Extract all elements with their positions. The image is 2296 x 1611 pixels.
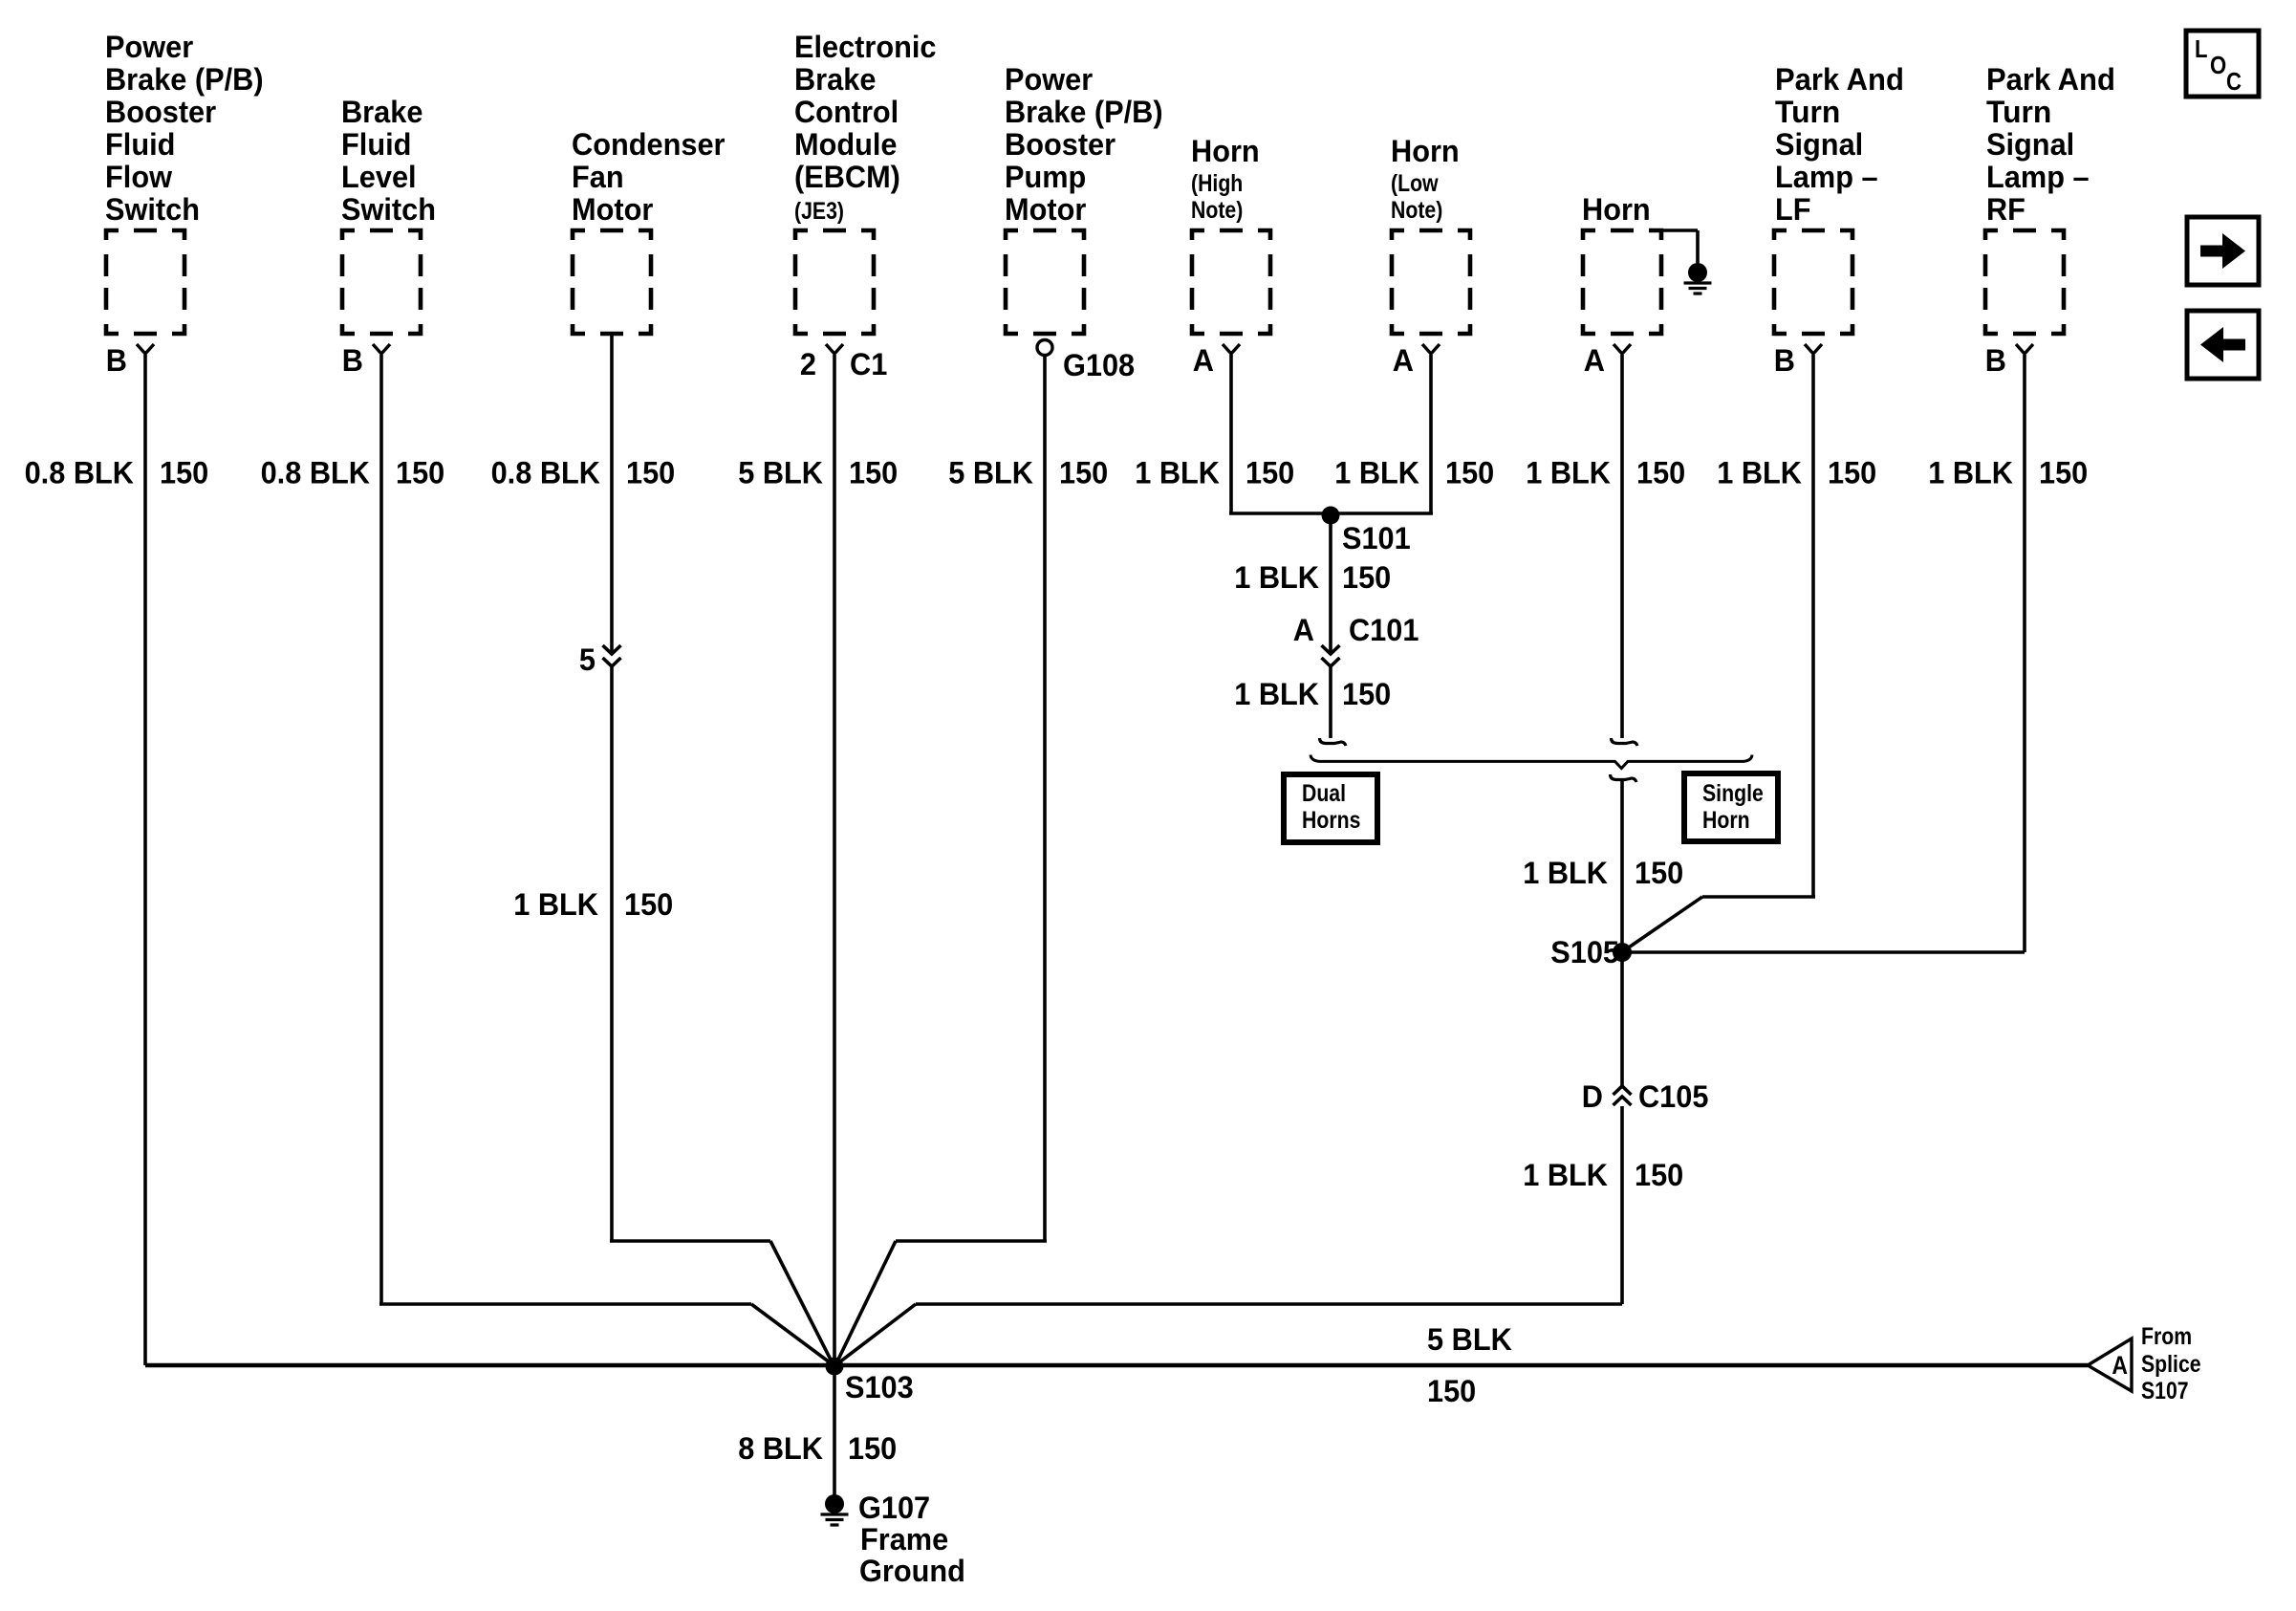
wire: 0.8 BLK 150 from P/B booster fluid flow switch pin B down to ground bus xyxy=(143,355,147,1365)
connector box: Horn (High Note) xyxy=(1191,134,1270,378)
svg-text:C101: C101 xyxy=(1349,613,1419,647)
svg-text:5 BLK: 5 BLK xyxy=(948,456,1033,490)
wire: 1 BLK 150 from connector C101 down to dual-horns option point xyxy=(1329,666,1332,738)
svg-text:5 BLK: 5 BLK xyxy=(738,456,823,490)
svg-text:Horn: Horn xyxy=(1191,134,1260,168)
svg-text:Lamp –: Lamp – xyxy=(1986,160,2090,194)
svg-text:8 BLK: 8 BLK xyxy=(738,1431,823,1466)
label: 1 BLK | 150 (S101 to C101) xyxy=(1234,560,1391,595)
svg-text:Brake: Brake xyxy=(794,62,876,97)
off-page connector triangle A (from splice S107) xyxy=(2088,1339,2132,1391)
label: From Splice S107 xyxy=(2141,1323,2201,1404)
svg-text:Control: Control xyxy=(794,95,899,129)
svg-text:5 BLK: 5 BLK xyxy=(1427,1322,1512,1357)
splice S101 xyxy=(1322,507,1411,556)
svg-text:Pump: Pump xyxy=(1005,160,1086,194)
wire: 0.8 BLK 150 from brake fluid level switch pin B down, right to splice S103 xyxy=(379,355,834,1365)
svg-text:(Low: (Low xyxy=(1391,170,1439,197)
wire: 8 BLK 150 from splice S103 down to frame ground G107 xyxy=(833,1366,836,1495)
legend box: left arrow xyxy=(2187,311,2259,379)
hook below option brace xyxy=(1611,774,1637,782)
svg-text:0.8 BLK: 0.8 BLK xyxy=(261,456,370,490)
in-line connector pin 5 (condenser fan harness) xyxy=(579,642,621,677)
svg-text:Power: Power xyxy=(1005,62,1093,97)
label: 1 BLK | 150 (horn low note wire) xyxy=(1334,456,1494,490)
splice S105 xyxy=(1550,935,1632,969)
svg-text:Level: Level xyxy=(341,160,417,194)
svg-text:D: D xyxy=(1582,1079,1603,1114)
svg-text:150: 150 xyxy=(1342,677,1391,711)
wire: 1 BLK 150 from splice S101 down to connector C101 xyxy=(1329,515,1332,654)
svg-text:Dual: Dual xyxy=(1302,780,1346,807)
label box: Dual Horns option xyxy=(1284,774,1377,842)
wire: 1 BLK 150 from splice S105 down to connector C105 xyxy=(1620,952,1624,1086)
svg-text:Flow: Flow xyxy=(105,160,172,194)
svg-text:150: 150 xyxy=(848,1431,897,1466)
svg-text:Motor: Motor xyxy=(1005,192,1086,227)
svg-text:S107: S107 xyxy=(2141,1378,2189,1404)
svg-text:Switch: Switch xyxy=(105,192,200,227)
wire: 1 BLK 150 from option brace down to splice S105 xyxy=(1620,778,1624,952)
svg-text:Signal: Signal xyxy=(1986,127,2074,162)
wire from horn case to chassis ground (top right of horn box) xyxy=(1661,230,1698,265)
svg-text:Switch: Switch xyxy=(341,192,436,227)
svg-text:B: B xyxy=(106,343,127,378)
legend box: right arrow xyxy=(2187,217,2259,285)
label: 1 BLK | 150 (C101 to option brace) xyxy=(1234,677,1391,711)
svg-text:(JE3): (JE3) xyxy=(794,198,844,225)
svg-text:1 BLK: 1 BLK xyxy=(1234,677,1319,711)
svg-text:Booster: Booster xyxy=(1005,127,1116,162)
wire: 1 BLK 150 from connector C105 down, left to splice S103 xyxy=(835,1106,1622,1365)
svg-text:150: 150 xyxy=(1445,456,1494,490)
connector box: Horn (single horn option) xyxy=(1582,192,1661,378)
ground symbol at horn case xyxy=(1684,263,1712,294)
option brace joining dual-horns and single-horn wiring xyxy=(1310,755,1752,769)
wire: 1 BLK 150 from park/turn lamp RF pin B down and left to splice S105 xyxy=(1622,355,2025,952)
svg-text:Turn: Turn xyxy=(1775,95,1840,129)
svg-text:S105: S105 xyxy=(1550,935,1619,969)
wire end hook (single horn option) xyxy=(1612,738,1638,746)
svg-text:150: 150 xyxy=(1427,1374,1476,1408)
svg-text:150: 150 xyxy=(1342,560,1391,595)
connector box: Condenser Fan Motor xyxy=(572,127,726,334)
svg-text:A: A xyxy=(2112,1351,2128,1380)
svg-text:C105: C105 xyxy=(1638,1079,1708,1114)
svg-text:LF: LF xyxy=(1775,192,1811,227)
wire: 0.8 BLK 150 from condenser fan motor down to in-line connector xyxy=(610,336,614,654)
svg-text:Horns: Horns xyxy=(1302,807,1360,834)
connector box: Horn (Low Note) xyxy=(1391,134,1470,378)
svg-text:A: A xyxy=(1193,343,1214,378)
svg-text:1 BLK: 1 BLK xyxy=(1526,456,1611,490)
svg-text:C1: C1 xyxy=(850,347,887,381)
label: 8 BLK | 150 (ground wire) xyxy=(738,1431,897,1466)
label: 0.8 BLK | 150 (level switch wire) xyxy=(261,456,445,490)
svg-text:Park And: Park And xyxy=(1775,62,1904,97)
svg-text:1 BLK: 1 BLK xyxy=(1523,856,1608,890)
label: 1 BLK | 150 (single horn wire) xyxy=(1526,456,1685,490)
label: 1 BLK | 150 (condenser fan lower wire) xyxy=(513,887,673,922)
label: 5 BLK / 150 on ground bus xyxy=(1427,1322,1512,1408)
connector box: Brake Fluid Level Switch xyxy=(341,95,436,378)
svg-text:Brake (P/B): Brake (P/B) xyxy=(105,62,264,97)
svg-text:C: C xyxy=(2226,67,2242,96)
svg-text:Electronic: Electronic xyxy=(794,30,937,64)
wire: 1 BLK 150 from horn low note pin A down and left to splice S101 xyxy=(1331,355,1433,513)
connector box: Electronic Brake Control Module (EBCM) (JE3) xyxy=(794,30,937,381)
svg-text:A: A xyxy=(1584,343,1605,378)
label: G107 Frame Ground xyxy=(858,1491,965,1588)
svg-text:1 BLK: 1 BLK xyxy=(1334,456,1419,490)
svg-text:150: 150 xyxy=(1636,456,1685,490)
svg-text:150: 150 xyxy=(1245,456,1294,490)
svg-text:0.8 BLK: 0.8 BLK xyxy=(25,456,134,490)
wire: 5 BLK 150 from booster pump motor ground eyelet G108 down, left to splice S103 xyxy=(835,356,1047,1366)
svg-text:Single: Single xyxy=(1702,780,1764,807)
svg-text:Fluid: Fluid xyxy=(341,127,411,162)
in-line connector C101 pin A xyxy=(1293,613,1419,666)
wire: ground bus 5 BLK 150 from flow switch corner to splice S107 triangle xyxy=(145,1363,2088,1368)
svg-text:RF: RF xyxy=(1986,192,2025,227)
svg-text:Brake: Brake xyxy=(341,95,422,129)
svg-text:150: 150 xyxy=(626,456,675,490)
svg-text:Lamp –: Lamp – xyxy=(1775,160,1878,194)
svg-text:S101: S101 xyxy=(1342,521,1411,555)
svg-text:Fan: Fan xyxy=(572,160,624,194)
svg-text:0.8 BLK: 0.8 BLK xyxy=(491,456,600,490)
label: 5 BLK | 150 (booster pump wire) xyxy=(948,456,1108,490)
svg-text:Horn: Horn xyxy=(1702,807,1750,834)
svg-text:A: A xyxy=(1393,343,1414,378)
svg-text:1 BLK: 1 BLK xyxy=(1234,560,1319,595)
label: 0.8 BLK | 150 (condenser fan wire) xyxy=(491,456,676,490)
svg-text:B: B xyxy=(1985,343,2006,378)
svg-text:B: B xyxy=(342,343,363,378)
svg-text:B: B xyxy=(1774,343,1795,378)
svg-text:Condenser: Condenser xyxy=(572,127,726,162)
label: 1 BLK | 150 (C105 to S103) xyxy=(1523,1158,1683,1192)
connector box: Power Brake (P/B) Booster Pump Motor xyxy=(1005,62,1163,382)
svg-text:150: 150 xyxy=(1635,1158,1683,1192)
wire: 5 BLK 150 from EBCM pin 2 C1 straight down to splice S103 xyxy=(833,355,836,1365)
svg-text:(EBCM): (EBCM) xyxy=(794,160,900,194)
label: 5 BLK | 150 (EBCM wire) xyxy=(738,456,898,490)
svg-text:Signal: Signal xyxy=(1775,127,1863,162)
svg-text:Frame: Frame xyxy=(860,1522,948,1557)
connector box: Park And Turn Signal Lamp - LF xyxy=(1774,62,1904,378)
svg-text:L: L xyxy=(2195,34,2208,63)
svg-text:Power: Power xyxy=(105,30,193,64)
wire: 1 BLK 150 from park/turn lamp LF pin B down, left and diagonal to splice S105 xyxy=(1623,355,1815,951)
svg-text:1 BLK: 1 BLK xyxy=(1928,456,2013,490)
svg-text:Note): Note) xyxy=(1391,197,1442,224)
svg-text:150: 150 xyxy=(1635,856,1683,890)
wire: 1 BLK 150 from single horn pin A down to option brace xyxy=(1620,355,1624,738)
svg-text:150: 150 xyxy=(1828,456,1876,490)
label: 1 BLK | 150 (RF lamp wire) xyxy=(1928,456,2088,490)
wire end hook (dual horns option) xyxy=(1320,738,1347,746)
svg-text:Turn: Turn xyxy=(1986,95,2051,129)
in-line connector C105 pin D xyxy=(1582,1079,1709,1114)
svg-text:150: 150 xyxy=(1059,456,1108,490)
connector box: Power Brake (P/B) Booster Fluid Flow Switch xyxy=(105,30,264,378)
svg-text:O: O xyxy=(2210,51,2226,79)
splice S103 xyxy=(826,1358,914,1405)
svg-text:Splice: Splice xyxy=(2141,1351,2201,1378)
svg-text:Ground: Ground xyxy=(859,1554,965,1588)
svg-text:1 BLK: 1 BLK xyxy=(1135,456,1220,490)
svg-text:Horn: Horn xyxy=(1391,134,1460,168)
svg-text:Note): Note) xyxy=(1191,197,1243,224)
svg-text:Horn: Horn xyxy=(1582,192,1651,227)
wire: 1 BLK 150 from connector pin 5 down, right to splice S103 xyxy=(610,666,834,1365)
label: 1 BLK | 150 (LF lamp wire) xyxy=(1717,456,1876,490)
svg-text:5: 5 xyxy=(579,642,596,677)
svg-text:A: A xyxy=(1293,613,1314,647)
svg-text:Motor: Motor xyxy=(572,192,653,227)
svg-text:Park And: Park And xyxy=(1986,62,2115,97)
svg-text:From: From xyxy=(2141,1323,2192,1350)
svg-text:150: 150 xyxy=(160,456,208,490)
svg-text:150: 150 xyxy=(849,456,898,490)
wire: 1 BLK 150 from horn high note pin A down and right to splice S101 xyxy=(1229,355,1331,513)
connector box: Park And Turn Signal Lamp - RF xyxy=(1985,62,2115,378)
svg-text:2: 2 xyxy=(800,347,816,381)
svg-text:G107: G107 xyxy=(858,1491,930,1525)
svg-text:S103: S103 xyxy=(845,1370,914,1404)
svg-text:G108: G108 xyxy=(1063,348,1135,382)
ground G107 frame ground symbol xyxy=(821,1494,849,1525)
svg-text:150: 150 xyxy=(624,887,673,922)
svg-text:Booster: Booster xyxy=(105,95,216,129)
svg-text:150: 150 xyxy=(2039,456,2088,490)
svg-text:Module: Module xyxy=(794,127,898,162)
svg-text:1 BLK: 1 BLK xyxy=(1717,456,1802,490)
svg-text:Fluid: Fluid xyxy=(105,127,175,162)
label: 1 BLK | 150 (horn high note wire) xyxy=(1135,456,1294,490)
svg-text:(High: (High xyxy=(1191,170,1243,197)
legend box: LOC xyxy=(2186,31,2259,97)
svg-text:1 BLK: 1 BLK xyxy=(1523,1158,1608,1192)
svg-text:1 BLK: 1 BLK xyxy=(513,887,598,922)
label: 0.8 BLK | 150 (flow switch wire) xyxy=(25,456,209,490)
svg-text:Brake (P/B): Brake (P/B) xyxy=(1005,95,1163,129)
svg-text:150: 150 xyxy=(396,456,444,490)
label: 1 BLK | 150 (brace to S105) xyxy=(1523,856,1683,890)
label box: Single Horn option xyxy=(1684,773,1778,841)
